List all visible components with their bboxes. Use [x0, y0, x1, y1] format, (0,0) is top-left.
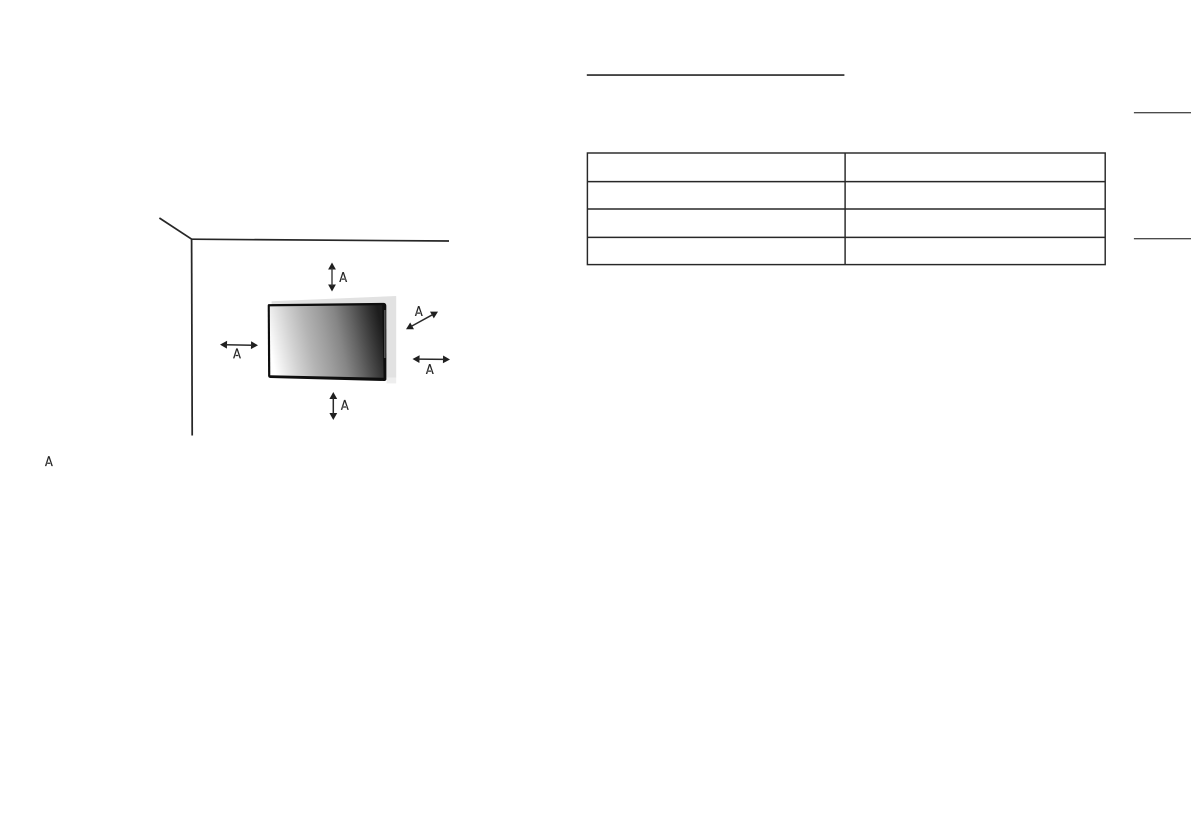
wall mount back panel	[272, 296, 397, 378]
label A diagonal	[415, 306, 423, 316]
arrow top (vertical double-headed)	[328, 263, 336, 292]
sidebar tab top line	[1134, 112, 1191, 113]
arrow diagonal (double-headed)	[406, 312, 438, 330]
label A right	[426, 364, 434, 374]
label A left	[233, 348, 241, 358]
label A legend (bottom-left of page)	[45, 456, 53, 466]
arrow right (horizontal double-headed)	[413, 355, 451, 363]
wall corner diagonal line	[159, 218, 191, 239]
arrow left (horizontal double-headed)	[220, 341, 258, 349]
back panel lower soft shadow	[387, 378, 397, 384]
monitor body (bezel and side)	[268, 303, 387, 381]
wall ceiling line	[192, 239, 449, 241]
arrow bottom (vertical double-headed)	[329, 392, 337, 420]
monitor screen (gradient)	[270, 305, 384, 378]
sidebar tab bottom line	[1134, 238, 1191, 239]
heading underline	[587, 74, 845, 76]
screen right edge highlight	[384, 310, 386, 358]
wall vertical line	[191, 239, 194, 436]
label A top	[339, 272, 347, 282]
table	[587, 153, 1105, 265]
label A bottom	[341, 400, 349, 410]
